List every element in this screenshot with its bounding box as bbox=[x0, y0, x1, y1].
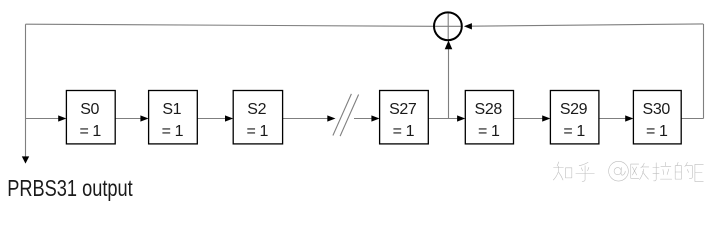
register box S29 bbox=[550, 91, 599, 144]
arrowhead into S2 bbox=[225, 115, 233, 121]
svg-text:S29: S29 bbox=[560, 101, 588, 118]
break slash 2 bbox=[340, 95, 359, 137]
wire XOR plus horizontal bbox=[434, 25, 463, 27]
XOR adder circle bbox=[434, 12, 462, 40]
watermark glyph 知 bbox=[553, 162, 571, 180]
watermark glyph 的 bbox=[675, 162, 692, 179]
svg-text:= 1: = 1 bbox=[247, 123, 269, 140]
wire feedback top-left segment bbox=[26, 24, 434, 26]
arrowhead into S28 bbox=[457, 115, 465, 121]
svg-text:PRBS31 output: PRBS31 output bbox=[7, 175, 133, 201]
arrowhead into S30 bbox=[625, 115, 633, 121]
svg-text:S0: S0 bbox=[80, 101, 99, 118]
arrowhead into S1 bbox=[140, 115, 148, 121]
arrowhead into S27 bbox=[371, 115, 379, 121]
break slash 1 bbox=[333, 94, 352, 136]
arrowhead at break bbox=[327, 115, 335, 121]
svg-text:= 1: = 1 bbox=[393, 123, 415, 140]
arrowhead into XOR from right bbox=[464, 23, 472, 29]
wire tap from S27-S28 node up to XOR bbox=[448, 49, 450, 119]
wire S2 to break bbox=[283, 118, 329, 120]
register box S0 bbox=[66, 91, 115, 144]
wire feedback top-right segment bbox=[471, 24, 703, 26]
svg-text:= 1: = 1 bbox=[646, 123, 668, 140]
svg-text:= 1: = 1 bbox=[79, 123, 101, 140]
wire into S0 bbox=[26, 118, 60, 120]
wire feedback right vertical bbox=[703, 24, 705, 119]
svg-text:S2: S2 bbox=[247, 101, 266, 118]
register box S2 bbox=[233, 91, 282, 144]
wire S29 to S30 bbox=[599, 118, 627, 120]
wire XOR plus vertical bbox=[447, 12, 449, 41]
svg-text:S30: S30 bbox=[643, 101, 671, 118]
svg-text:= 1: = 1 bbox=[563, 123, 585, 140]
watermark 知乎 @欧拉的E bbox=[553, 161, 703, 181]
watermark glyph @ bbox=[609, 161, 629, 181]
watermark glyph 欧 bbox=[631, 163, 649, 179]
register box S27 bbox=[380, 91, 429, 144]
wire left vertical bbox=[25, 24, 27, 157]
wire S1 to S2 bbox=[197, 118, 226, 120]
wire S28 to S29 bbox=[514, 118, 544, 120]
register box S30 bbox=[633, 91, 681, 144]
arrowhead output down bbox=[22, 156, 29, 163]
svg-text:S27: S27 bbox=[389, 101, 417, 118]
svg-text:S28: S28 bbox=[475, 101, 503, 118]
arrowhead into S29 bbox=[542, 115, 550, 121]
watermark glyph 拉 bbox=[653, 162, 672, 181]
arrowhead into XOR from below bbox=[445, 41, 453, 50]
svg-text:= 1: = 1 bbox=[478, 123, 500, 140]
watermark glyph 乎 bbox=[576, 162, 594, 181]
watermark glyph E bbox=[695, 164, 703, 181]
wire S30 output to feedback bbox=[681, 118, 704, 120]
svg-text:S1: S1 bbox=[162, 101, 181, 118]
wire break to S27 bbox=[354, 118, 373, 120]
register box S28 bbox=[465, 91, 513, 144]
wire S27 to S28 bbox=[428, 118, 459, 120]
svg-text:= 1: = 1 bbox=[162, 123, 184, 140]
arrowhead into S0 bbox=[58, 115, 66, 121]
register box S1 bbox=[149, 91, 198, 144]
wire S0 to S1 bbox=[115, 118, 142, 120]
